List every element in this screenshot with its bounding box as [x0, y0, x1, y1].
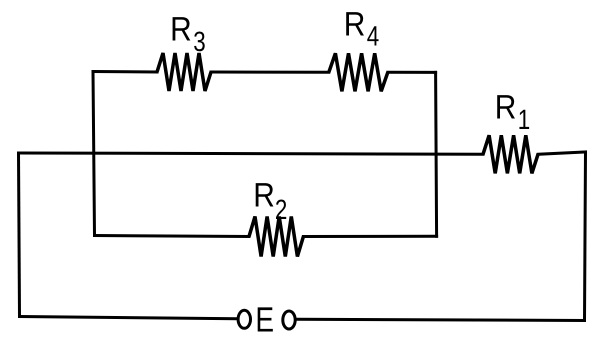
svg-text:R: R: [495, 89, 517, 127]
svg-text:3: 3: [193, 26, 205, 57]
svg-text:R: R: [344, 6, 366, 44]
svg-text:E: E: [255, 301, 274, 340]
svg-text:R: R: [253, 177, 275, 215]
svg-text:1: 1: [518, 104, 530, 135]
svg-text:R: R: [170, 10, 192, 48]
svg-text:4: 4: [367, 20, 379, 51]
svg-text:2: 2: [275, 194, 287, 225]
